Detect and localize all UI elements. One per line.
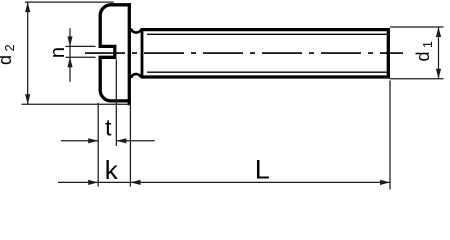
d1 dimension line — [438, 27, 440, 79]
svg-text:n: n — [47, 47, 69, 58]
shank thread crest line bottom — [142, 75, 390, 78]
d2 arrow top — [25, 2, 30, 12]
n arrow upper (pointing down) — [67, 36, 72, 46]
n dimension line — [69, 28, 71, 82]
d2 dimension line — [27, 2, 29, 104]
svg-text:k: k — [105, 155, 119, 185]
thread run-out curve bottom — [131, 74, 142, 78]
svg-text:t: t — [105, 114, 112, 140]
d1 arrow top — [436, 27, 441, 37]
d1 extension line top — [390, 26, 444, 28]
t dimension line left tail — [61, 140, 98, 142]
k/L dimension line — [58, 181, 390, 183]
t arrow left (pointing right) — [88, 138, 98, 143]
L arrow left (pointing left at bearing face) — [131, 180, 141, 185]
d1 extension line bottom — [390, 78, 444, 80]
shank thread crest line top — [142, 28, 390, 31]
t extension line left — [97, 103, 99, 187]
shank end face — [387, 28, 390, 79]
t dimension line right tail — [116, 140, 154, 142]
screw head outline with slot notch — [100, 5, 131, 101]
thread root line bottom — [147, 71, 387, 73]
t arrow right (pointing left) — [116, 138, 126, 143]
n arrow lower (pointing up) — [67, 57, 72, 67]
n extension line upper (slot top edge) — [66, 45, 96, 47]
L arrow right (pointing right at shank end) — [380, 180, 390, 185]
L extension line right (at shank end) — [389, 81, 391, 190]
thread run-out curve top — [131, 29, 142, 33]
k arrow left (pointing right) — [88, 180, 98, 185]
head bearing face — [128, 3, 131, 105]
d2 extension line top — [25, 1, 114, 3]
d1 arrow bottom — [436, 69, 441, 79]
full-thread boundary line — [141, 28, 144, 78]
svg-text:d1: d1 — [413, 41, 435, 62]
n extension line lower (slot bottom edge) — [66, 56, 96, 58]
svg-text:d2: d2 — [0, 44, 17, 65]
d2 extension line bottom — [22, 103, 131, 105]
svg-text:L: L — [255, 155, 270, 185]
t extension line right (from slot bottom) — [115, 59, 117, 146]
k extension line right (below bearing face) — [129, 104, 131, 187]
thread root line top — [147, 33, 387, 35]
centerline (dash-dot axis) — [85, 52, 403, 54]
d2 arrow bottom — [25, 94, 30, 104]
